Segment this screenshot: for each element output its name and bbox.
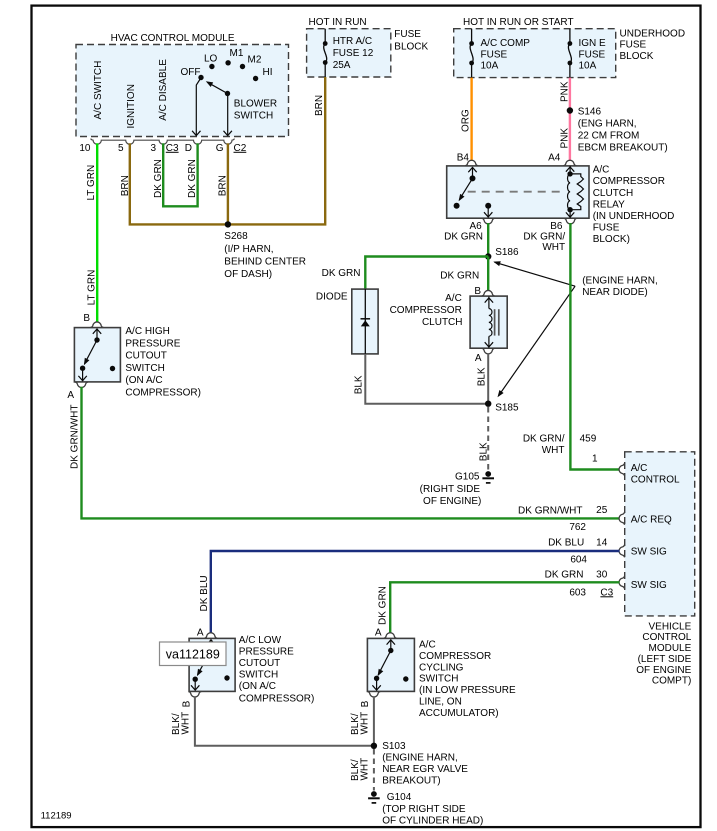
svg-text:C3: C3 [600,587,613,598]
svg-text:A: A [197,627,204,638]
svg-text:WHT: WHT [180,712,191,735]
splice S268 (I/P HARN, BEHIND CENTER OF DASH) [225,221,231,227]
svg-text:PNK: PNK [559,81,570,102]
wire DK GRN relay A6 to S186 [487,223,489,257]
svg-text:BEHIND CENTER: BEHIND CENTER [224,257,306,268]
svg-text:603: 603 [569,587,586,598]
svg-text:C2: C2 [234,143,247,154]
svg-text:M1: M1 [230,48,244,59]
svg-text:UNDERHOOD: UNDERHOOD [620,29,686,40]
svg-text:G104: G104 [387,792,412,803]
svg-text:SWITCH: SWITCH [419,674,458,685]
terminal B [91,322,104,328]
svg-text:SWITCH: SWITCH [125,363,164,374]
svg-text:CUTOUT: CUTOUT [239,658,280,669]
svg-text:DK GRN/: DK GRN/ [523,433,565,444]
relay switch contacts [472,167,474,178]
relay armature dashed link [468,191,563,193]
svg-text:IGNITION: IGNITION [126,84,137,128]
svg-text:A/C: A/C [419,640,436,651]
fuse HTR A/C FUSE 12 25A [323,41,328,46]
svg-text:604: 604 [570,554,587,565]
svg-text:FUSE 12: FUSE 12 [333,48,374,59]
svg-text:SW SIG: SW SIG [631,580,667,591]
VCM pin 25 A/C REQ [619,512,625,525]
svg-text:S103: S103 [382,741,406,752]
svg-text:OF CYLINDER HEAD): OF CYLINDER HEAD) [382,816,483,827]
svg-text:A4: A4 [548,153,561,164]
svg-text:FUSE: FUSE [481,50,508,61]
svg-text:3: 3 [150,143,156,154]
svg-text:CONTROL: CONTROL [631,475,680,486]
svg-text:PNK: PNK [559,128,570,149]
splice S185 [485,401,491,407]
svg-text:S186: S186 [495,247,519,258]
svg-text:SW SIG: SW SIG [631,546,667,557]
terminal B [189,692,202,698]
wire BLK clutch A to S185 [487,353,489,404]
svg-text:va112189: va112189 [166,648,220,662]
relay terminal A4 [564,160,577,166]
splice S103 (ENGINE HARN, NEAR EGR VALVE BREAKOUT) [371,743,377,749]
wire DK GRN/WHT 459 relay B6 to VCM pin 1 [570,223,619,470]
svg-text:COMPRESSOR: COMPRESSOR [390,305,462,316]
svg-text:BRN: BRN [120,175,131,196]
svg-text:WHT: WHT [360,758,371,781]
svg-text:B: B [83,313,90,324]
svg-text:VEHICLE: VEHICLE [649,621,692,632]
svg-text:S268: S268 [224,231,248,242]
switch contacts [210,640,212,651]
svg-text:SWITCH: SWITCH [234,111,273,122]
wire BLK/WHT low pressure switch B to S103 [195,696,374,746]
svg-text:BRN: BRN [217,175,228,196]
svg-text:LO: LO [204,53,218,64]
svg-text:OFF: OFF [181,67,201,78]
relay A/C COMPRESSOR CLUTCH RELAY box [447,166,589,218]
splice S186 [485,253,491,259]
terminal A [384,633,397,639]
svg-text:22 CM FROM: 22 CM FROM [578,130,640,141]
svg-text:BRN: BRN [314,95,325,116]
svg-text:LINE, ON: LINE, ON [419,696,462,707]
svg-text:B: B [474,286,481,297]
wire DK GRN jumper between HVAC pins 3 and D [163,143,197,206]
svg-text:(IN LOW PRESSURE: (IN LOW PRESSURE [419,685,516,696]
wire DK GRN S186 to diode [365,257,488,290]
svg-text:A/C LOW: A/C LOW [239,635,282,646]
wire DK GRN/WHT high pressure switch A to VCM pin 25 [82,387,620,519]
svg-text:A/C: A/C [631,463,648,474]
VCM pin 14 SW SIG [619,545,625,558]
wire DK GRN S186 to clutch B [487,257,489,292]
svg-text:COMPRESSOR): COMPRESSOR) [125,387,201,398]
svg-text:DK BLU: DK BLU [199,575,210,611]
fuse A/C COMP FUSE 10A [471,29,473,44]
switch contacts [390,640,392,651]
terminal A [75,382,88,388]
svg-text:SWITCH: SWITCH [239,669,278,680]
svg-text:30: 30 [596,570,608,581]
terminal A [204,633,217,639]
svg-text:459: 459 [580,434,597,445]
module VEHICLE CONTROL MODULE box [625,452,695,616]
svg-text:EBCM BREAKOUT): EBCM BREAKOUT) [578,142,668,153]
blower switch wiper arm arrow to OFF [208,82,228,93]
svg-text:G105: G105 [455,471,480,482]
blower switch wiper pivot [225,91,230,96]
svg-text:OF DASH): OF DASH) [224,269,272,280]
svg-text:10: 10 [79,143,91,154]
svg-text:RELAY: RELAY [593,199,625,210]
svg-text:WHT: WHT [542,242,565,253]
svg-text:G: G [216,143,224,154]
clutch terminal A [482,348,495,354]
svg-text:(ON A/C: (ON A/C [239,681,276,692]
svg-text:(RIGHT SIDE: (RIGHT SIDE [420,484,481,495]
relay terminal B4 [465,160,478,166]
svg-text:CONTROL: CONTROL [642,632,691,643]
svg-text:COMPT): COMPT) [652,676,691,687]
svg-text:(ON A/C: (ON A/C [125,375,162,386]
svg-text:PRESSURE: PRESSURE [239,646,294,657]
svg-text:PRESSURE: PRESSURE [125,338,180,349]
svg-text:A/C REQ: A/C REQ [631,515,672,526]
diode box [352,289,378,354]
callout (ENGINE HARN, NEAR DIODE) with arrows to S186 and S185 [495,262,576,286]
svg-text:DK GRN/: DK GRN/ [523,231,565,242]
svg-text:DIODE: DIODE [316,292,348,303]
relay terminal B6 [564,218,577,224]
svg-text:BREAKOUT): BREAKOUT) [382,776,440,787]
wire BLK dashed S185 to G105 [487,407,489,470]
wire LT GRN from HVAC pin 10 to high pressure switch B [96,143,98,321]
svg-text:25: 25 [596,505,608,516]
A/C COMPRESSOR CLUTCH box [470,296,507,348]
svg-text:CLUTCH: CLUTCH [422,317,463,328]
svg-text:D: D [185,143,192,154]
clutch terminal B [482,290,495,296]
svg-text:DK GRN: DK GRN [322,268,361,279]
svg-text:DK GRN/WHT: DK GRN/WHT [518,506,582,517]
splice S146 (ENG HARN, 22 CM FROM EBCM BREAKOUT) [567,107,573,113]
wire DK GRN VCM pin 30 to cycling switch A [390,582,619,633]
svg-text:A/C HIGH: A/C HIGH [125,326,169,337]
svg-text:CLUTCH: CLUTCH [593,188,634,199]
wire BRN from HVAC pin G to S268 [227,143,229,224]
VCM pin 1 A/C CONTROL [619,463,625,476]
svg-text:A/C COMP: A/C COMP [481,38,531,49]
svg-text:CUTOUT: CUTOUT [125,351,166,362]
svg-text:(LEFT SIDE: (LEFT SIDE [638,654,692,665]
switch A/C LOW PRESSURE CUTOUT SWITCH box [189,638,235,691]
svg-text:DK GRN: DK GRN [153,159,164,198]
diode symbol [364,289,366,354]
svg-text:(ENG HARN,: (ENG HARN, [578,118,637,129]
arrow from OFF contact down to terminal D [196,79,200,136]
svg-text:(I/P HARN,: (I/P HARN, [224,244,273,255]
svg-text:(IN UNDERHOOD: (IN UNDERHOOD [593,211,675,222]
relay terminal A6 [482,218,495,224]
svg-text:BLOWER: BLOWER [234,98,277,109]
wire PNK from IGN E fuse to relay A4 [569,78,571,161]
svg-text:HI: HI [263,67,273,78]
svg-text:ORG: ORG [460,109,471,132]
svg-text:DK GRN: DK GRN [444,231,483,242]
svg-text:1: 1 [592,454,598,465]
svg-text:A/C SWITCH: A/C SWITCH [93,61,104,120]
svg-text:OF ENGINE): OF ENGINE) [423,496,481,507]
svg-text:B: B [360,700,371,707]
svg-text:BLOCK: BLOCK [620,51,654,62]
svg-text:B6: B6 [550,221,563,232]
wire BRN from HVAC pin 5 to S268 and fuse block [130,77,325,224]
relay coil with parallel resistor [567,171,572,176]
svg-text:COMPRESSOR: COMPRESSOR [593,176,665,187]
svg-text:B: B [182,700,193,707]
svg-text:112189: 112189 [41,811,72,822]
switch contacts [96,329,98,340]
ground G105 (RIGHT SIDE OF ENGINE) [485,471,491,477]
svg-text:A: A [375,627,382,638]
HVAC terminals 10 / 5 / 3 C3 / D / G C2 : connector rail with notches [91,139,235,145]
ground G104 (TOP RIGHT SIDE OF CYLINDER HEAD) [371,791,377,797]
svg-text:DK GRN: DK GRN [187,159,198,198]
svg-text:5: 5 [118,143,124,154]
svg-text:A/C DISABLE: A/C DISABLE [158,59,169,121]
svg-text:A: A [475,353,482,364]
svg-text:LT GRN: LT GRN [86,270,97,306]
svg-text:NEAR DIODE): NEAR DIODE) [582,287,648,298]
wire ORG from A/C COMP fuse to relay B4 [470,78,472,161]
svg-text:HOT IN RUN OR START: HOT IN RUN OR START [463,17,574,28]
svg-text:(TOP RIGHT SIDE: (TOP RIGHT SIDE [382,804,466,815]
switch A/C COMPRESSOR CYCLING SWITCH box [367,638,414,691]
svg-text:(ENGINE HARN,: (ENGINE HARN, [582,276,658,287]
svg-text:10A: 10A [481,61,499,72]
svg-text:DK GRN: DK GRN [440,271,479,282]
svg-text:COMPRESSOR): COMPRESSOR) [239,693,315,704]
svg-text:OF ENGINE: OF ENGINE [636,665,691,676]
fuse IGN E FUSE 10A [569,29,571,44]
module HVAC CONTROL MODULE [76,45,289,137]
svg-text:762: 762 [569,522,586,533]
svg-text:WHT: WHT [542,445,565,456]
svg-text:DK GRN/WHT: DK GRN/WHT [70,405,81,469]
svg-text:10A: 10A [579,61,597,72]
svg-text:(ENGINE HARN,: (ENGINE HARN, [382,753,458,764]
clutch coil symbol [488,297,490,309]
svg-text:BLK: BLK [478,442,489,461]
svg-text:DK GRN: DK GRN [545,570,584,581]
svg-text:WHT: WHT [360,712,371,735]
svg-text:A/C: A/C [445,293,462,304]
svg-text:A/C: A/C [593,165,610,176]
svg-text:NEAR EGR VALVE: NEAR EGR VALVE [382,764,468,775]
svg-text:BLK: BLK [353,375,364,394]
svg-text:HOT IN RUN: HOT IN RUN [309,17,367,28]
svg-text:DK GRN: DK GRN [377,586,388,625]
watermark label va112189 [160,642,227,666]
svg-text:HTR A/C: HTR A/C [333,36,372,47]
svg-text:IGN E: IGN E [579,38,607,49]
VCM pin 30 SW SIG [619,576,625,589]
svg-text:25A: 25A [333,60,351,71]
wire DK BLU VCM pin 14 to low pressure switch A [211,551,620,633]
wire BLK/WHT dashed S103 to G104 [373,749,375,791]
svg-text:FUSE: FUSE [620,40,647,51]
svg-text:A6: A6 [469,221,482,232]
relay output contact to A6 [485,203,491,209]
svg-text:LT GRN: LT GRN [86,165,97,201]
svg-text:DK BLU: DK BLU [548,538,584,549]
terminal B [368,692,381,698]
svg-text:FUSE: FUSE [579,50,606,61]
svg-text:A: A [67,390,74,401]
svg-text:FUSE: FUSE [394,29,421,40]
svg-text:BLOCK): BLOCK) [593,234,630,245]
wire BLK diode to S185 [365,354,488,404]
switch A/C HIGH PRESSURE CUTOUT SWITCH box [74,328,120,382]
svg-text:BLK: BLK [476,367,487,386]
svg-text:HVAC CONTROL MODULE: HVAC CONTROL MODULE [111,33,235,44]
svg-text:M2: M2 [248,55,262,66]
svg-text:ACCUMULATOR): ACCUMULATOR) [419,708,499,719]
svg-text:S185: S185 [495,402,519,413]
wire BLK/WHT cycling switch B to S103 [373,696,375,746]
arrow from pivot down to terminal G [227,96,229,136]
svg-text:CYCLING: CYCLING [419,662,464,673]
svg-text:B4: B4 [457,153,470,164]
svg-text:COMPRESSOR: COMPRESSOR [419,651,491,662]
svg-text:14: 14 [596,538,608,549]
svg-text:BLOCK: BLOCK [394,42,428,53]
svg-text:S146: S146 [578,106,602,117]
svg-text:C3: C3 [166,143,179,154]
svg-text:MODULE: MODULE [649,643,692,654]
svg-text:FUSE: FUSE [593,223,620,234]
